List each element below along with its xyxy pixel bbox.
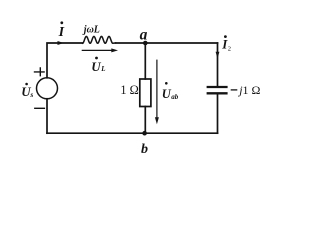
label I2 with phasor dot bbox=[221, 35, 231, 52]
voltage source Us circle bbox=[37, 78, 58, 99]
svg-text:U: U bbox=[91, 59, 101, 74]
svg-text:ab: ab bbox=[171, 93, 179, 101]
current arrow I2 on right branch bbox=[216, 52, 220, 59]
node a junction dot bbox=[143, 41, 148, 46]
resistor R 1Ω body bbox=[140, 79, 151, 107]
wire top-right segment from inductor to corner bbox=[116, 42, 218, 44]
label I with phasor dot bbox=[58, 21, 65, 40]
inductor L jωL coil bbox=[83, 36, 116, 43]
label Uab with phasor dot bbox=[162, 82, 179, 101]
svg-text:L: L bbox=[100, 65, 105, 73]
svg-text:j1 Ω: j1 Ω bbox=[237, 83, 260, 97]
svg-text:1 Ω: 1 Ω bbox=[120, 83, 138, 97]
svg-text:b: b bbox=[141, 142, 148, 157]
wire node a to resistor bbox=[144, 43, 146, 79]
svg-text:U: U bbox=[162, 87, 172, 101]
wire right branch upper bbox=[217, 43, 219, 86]
voltage arrow UL under inductor bbox=[82, 48, 118, 52]
svg-text:s: s bbox=[29, 90, 33, 99]
wire left branch lower bbox=[46, 99, 48, 133]
value label -j1 Ω of capacitor bbox=[231, 83, 261, 97]
capacitor C -j1Ω plates bbox=[207, 87, 228, 93]
svg-text:I: I bbox=[58, 25, 65, 40]
current arrow I on top-left wire bbox=[58, 41, 64, 45]
svg-text:2: 2 bbox=[228, 46, 231, 53]
polarity plus of Us bbox=[34, 67, 45, 76]
wire bottom bbox=[47, 132, 218, 134]
svg-text:jωL: jωL bbox=[82, 25, 100, 36]
polarity minus of Us bbox=[35, 107, 45, 109]
wire resistor to node b bbox=[144, 107, 146, 134]
label UL with phasor dot bbox=[91, 57, 105, 74]
wire top-left segment with corner bbox=[47, 43, 83, 78]
svg-text:a: a bbox=[140, 27, 148, 44]
wire right branch lower bbox=[217, 94, 219, 134]
node b junction dot bbox=[142, 131, 147, 136]
label Us with phasor dot bbox=[21, 83, 33, 100]
voltage arrow Uab beside resistor bbox=[155, 60, 159, 125]
